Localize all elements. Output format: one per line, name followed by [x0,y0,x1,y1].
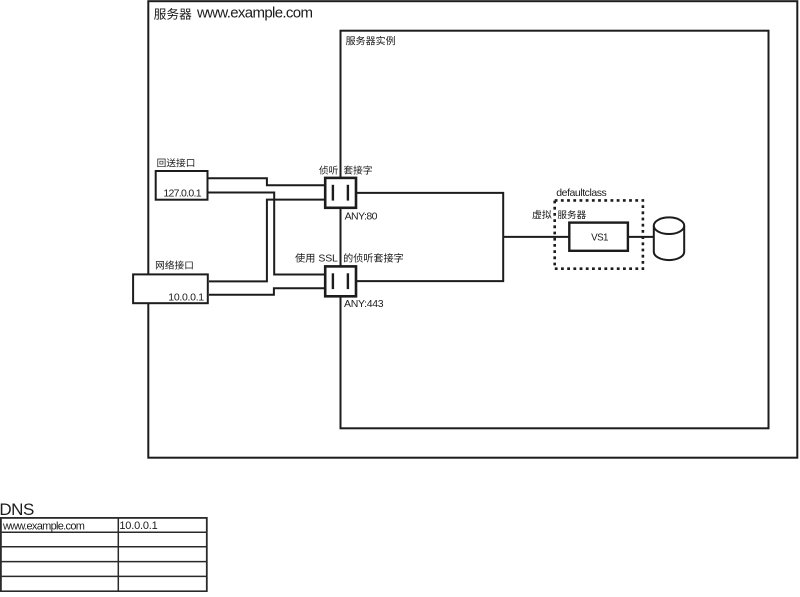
svg-text:www.example.com: www.example.com [2,520,85,532]
svg-text:DNS: DNS [0,500,34,519]
label loopback interface (CJK) [157,158,194,167]
label virtual server (CJK part 1) [532,210,551,219]
loopback interface box [156,171,208,200]
label listen socket (CJK part 1) [319,166,338,175]
svg-text:SSL: SSL [318,253,338,265]
wire VS1 to store [629,236,656,238]
label SSL socket suffix (CJK) [344,253,403,262]
svg-text:ANY:443: ANY:443 [344,298,384,310]
virtual server VS1 box [569,223,628,251]
DNS table [1,518,207,591]
svg-text:127.0.0.1: 127.0.0.1 [163,188,201,200]
wire loopback to socket443 [208,193,326,275]
defaultclass dashed box [555,200,643,268]
network interface box [133,274,208,303]
svg-text:VS1: VS1 [591,233,608,244]
svg-text:10.0.0.1: 10.0.0.1 [168,292,204,304]
outer box: server [148,1,797,458]
svg-text:defaultclass: defaultclass [556,187,606,199]
inner box: server instance [341,31,769,429]
label server instance (CJK) [346,36,395,45]
wire network to socket80 [209,200,326,282]
svg-text:ANY:80: ANY:80 [345,211,378,223]
svg-text:www.example.com: www.example.com [196,4,312,21]
label server (CJK title) [154,8,191,20]
wire loopback to socket80 [208,178,326,185]
listen socket 443 [325,266,356,296]
wire socket443 output [356,237,504,281]
label listen socket (CJK part 2) [344,165,372,174]
label network interface (CJK) [156,260,193,269]
wire socket80 output [356,193,504,237]
data store cylinder [654,217,684,260]
wire network to socket443 [209,288,326,295]
wire bus to VS1 [503,236,569,238]
svg-text:10.0.0.1: 10.0.0.1 [119,520,157,532]
label virtual server (CJK part 2) [558,210,586,219]
label SSL socket prefix (CJK) [295,253,314,262]
listen socket 80 [325,178,356,208]
